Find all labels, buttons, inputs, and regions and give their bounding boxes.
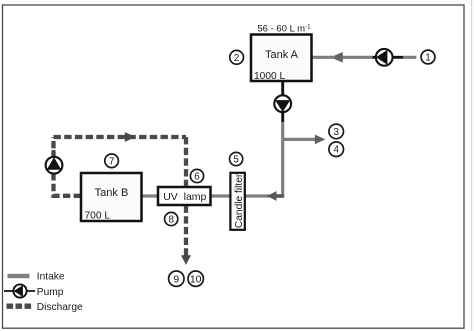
svg-text:Discharge: Discharge: [37, 302, 83, 313]
legend discharge swatch: [7, 304, 32, 309]
svg-text:56 - 60 L m-1: 56 - 60 L m-1: [257, 24, 311, 35]
discharge arrowhead on top run: [125, 132, 136, 142]
node 9: [169, 271, 184, 286]
svg-text:Tank B: Tank B: [95, 187, 129, 199]
pump P3 connector stub: [52, 150, 56, 180]
svg-text:Candle filter: Candle filter: [234, 173, 245, 228]
arrowhead into candle filter: [267, 191, 284, 201]
wire branch to nodes 3 and 4: [283, 138, 316, 141]
discharge arrowhead down: [181, 255, 191, 265]
UV lamp U1: [158, 187, 211, 205]
pump P2 connector stub: [281, 82, 284, 122]
arrowhead toward nodes 3 and 4: [315, 135, 326, 145]
node 2: [230, 50, 244, 64]
legend intake swatch: [8, 274, 30, 278]
node 8: [165, 212, 178, 225]
svg-text:7: 7: [109, 156, 114, 167]
svg-text:1000 L: 1000 L: [254, 71, 285, 82]
node 1: [421, 50, 435, 64]
pump P1: [376, 49, 393, 66]
svg-text:4: 4: [333, 145, 339, 156]
pump P2: [274, 95, 291, 112]
svg-text:Intake: Intake: [37, 272, 65, 283]
node 6: [190, 169, 203, 182]
pump P1 connector stub: [373, 56, 404, 59]
svg-text:3: 3: [333, 127, 339, 138]
node 7: [105, 154, 119, 168]
svg-text:Tank A: Tank A: [265, 49, 299, 61]
svg-text:1: 1: [425, 52, 430, 63]
legend pump label: [37, 287, 64, 298]
tank A: [251, 35, 312, 82]
svg-text:Pump: Pump: [37, 287, 64, 298]
pump P3: [46, 157, 63, 174]
legend discharge label: [37, 302, 83, 313]
svg-text:5: 5: [233, 155, 239, 166]
wire junction to candle filter: [244, 194, 285, 197]
wire discharge down into UV lamp (dashed): [184, 137, 188, 187]
svg-text:UV lamp: UV lamp: [163, 191, 206, 203]
wire Tank A outlet down to junction: [281, 81, 284, 198]
tank B: [81, 173, 142, 221]
wire intake from node 1 to Tank A: [311, 56, 416, 59]
wire UV lamp to candle filter: [210, 194, 232, 197]
node 10: [188, 271, 203, 286]
intake arrowhead into Tank A: [335, 52, 343, 63]
svg-text:6: 6: [194, 172, 200, 183]
candle filter F1: [230, 173, 245, 230]
legend intake label: [37, 272, 65, 283]
wire discharge Tank B to pump P3 (dashed): [54, 137, 82, 196]
legend pump symbol: [4, 284, 35, 297]
wire Tank B to UV lamp: [141, 194, 159, 197]
svg-text:9: 9: [173, 274, 179, 285]
node 5: [230, 152, 243, 165]
svg-text:700 L: 700 L: [85, 210, 111, 221]
wire discharge top run to UV lamp (dashed): [54, 135, 187, 139]
svg-text:8: 8: [168, 215, 174, 226]
node 4: [329, 142, 344, 157]
wire discharge UV lamp down to outfall (dashed): [184, 206, 188, 257]
svg-text:10: 10: [190, 274, 202, 285]
flow rate label 56 - 60 L m-1: [257, 24, 311, 35]
node 3: [329, 124, 344, 139]
svg-text:2: 2: [234, 53, 239, 64]
